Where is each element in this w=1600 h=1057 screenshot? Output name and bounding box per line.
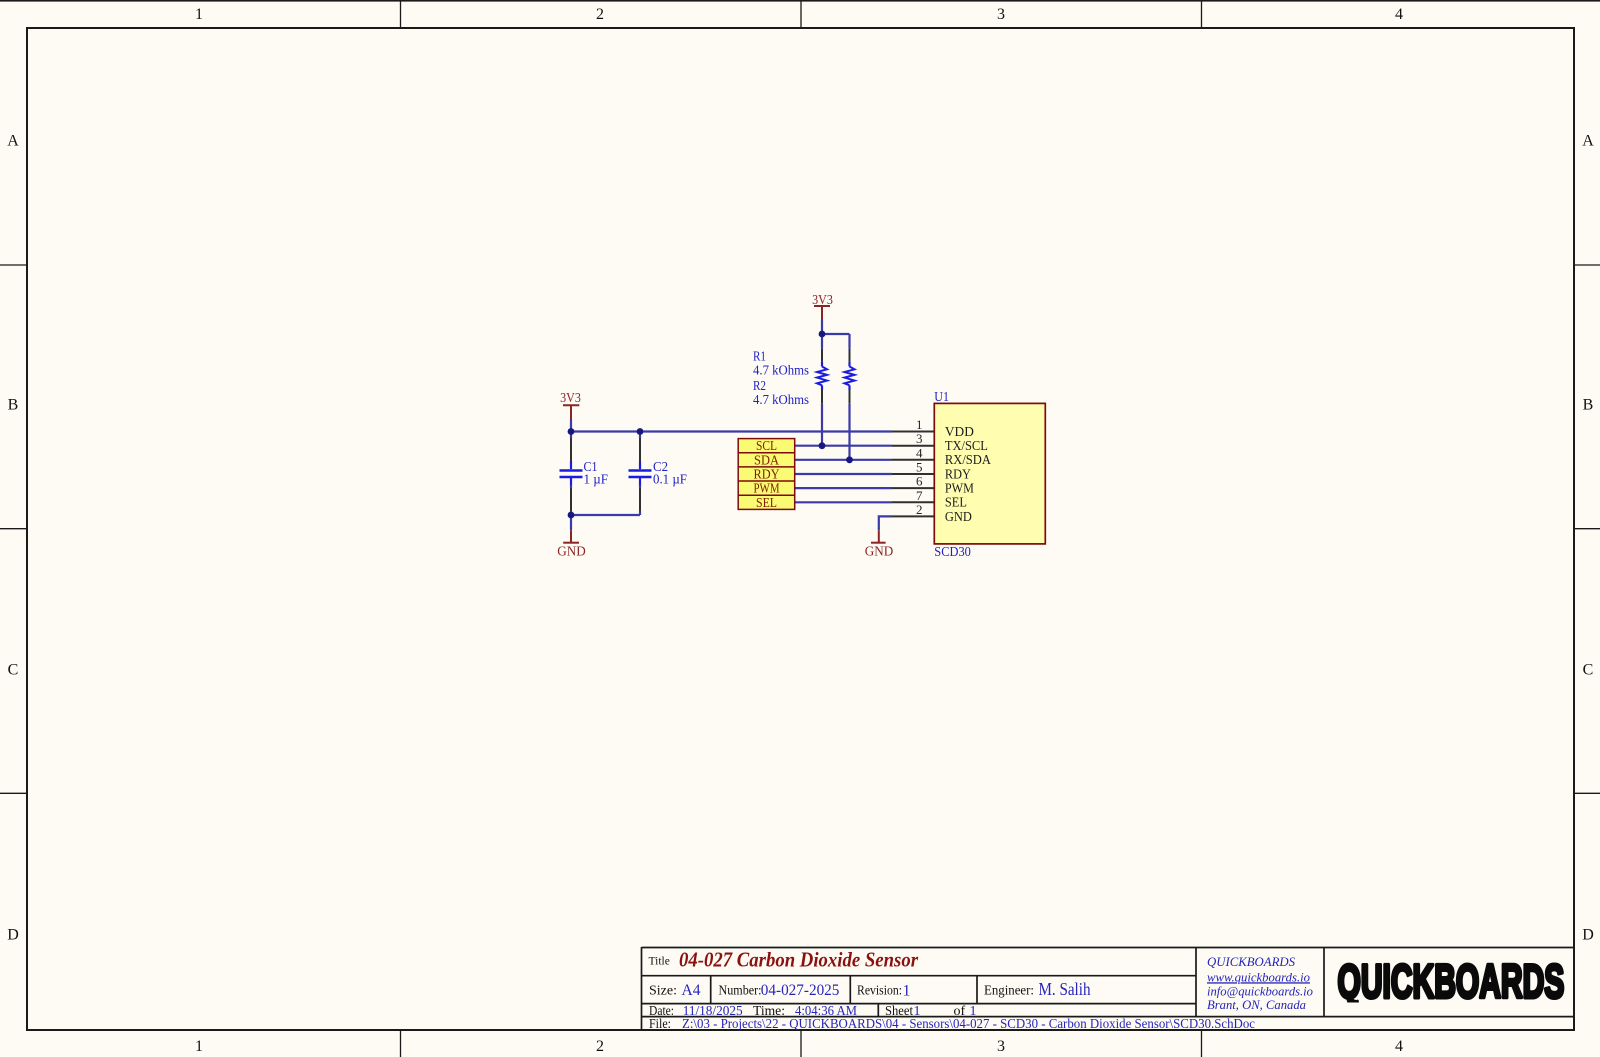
svg-text:2: 2 xyxy=(916,502,923,517)
svg-text:Z:\03 - Projects\22 - QUICKBOA: Z:\03 - Projects\22 - QUICKBOARDS\04 - S… xyxy=(682,1016,1255,1031)
svg-text:A: A xyxy=(1582,133,1594,150)
svg-text:1 µF: 1 µF xyxy=(584,471,609,486)
svg-text:Size:: Size: xyxy=(649,984,677,999)
svg-text:U1: U1 xyxy=(934,389,949,404)
svg-text:PWM: PWM xyxy=(754,481,780,496)
svg-text:R2: R2 xyxy=(753,378,766,393)
svg-text:PWM: PWM xyxy=(945,481,974,496)
svg-text:7: 7 xyxy=(916,488,923,503)
svg-text:04-027-2025: 04-027-2025 xyxy=(761,982,840,999)
svg-text:M. Salih: M. Salih xyxy=(1039,979,1091,999)
svg-text:2: 2 xyxy=(596,1038,604,1055)
svg-text:SCD30: SCD30 xyxy=(934,544,971,559)
svg-text:Number:: Number: xyxy=(719,984,762,999)
svg-text:VDD: VDD xyxy=(945,424,974,439)
svg-text:info@quickboards.io: info@quickboards.io xyxy=(1207,983,1313,998)
svg-text:QUICKBOARDS: QUICKBOARDS xyxy=(1338,956,1565,1008)
svg-text:SEL: SEL xyxy=(756,495,777,510)
svg-text:2: 2 xyxy=(596,6,604,23)
svg-text:Engineer:: Engineer: xyxy=(984,984,1034,999)
svg-text:D: D xyxy=(7,927,19,944)
svg-text:GND: GND xyxy=(557,544,586,559)
svg-text:GND: GND xyxy=(945,509,972,524)
svg-text:4: 4 xyxy=(916,445,923,460)
svg-text:04-027 Carbon Dioxide Sensor: 04-027 Carbon Dioxide Sensor xyxy=(679,948,919,972)
svg-text:A4: A4 xyxy=(682,982,701,999)
svg-text:SEL: SEL xyxy=(945,495,967,510)
svg-text:3: 3 xyxy=(916,431,923,446)
svg-text:Title: Title xyxy=(649,955,670,967)
svg-text:C: C xyxy=(1583,662,1594,679)
svg-text:1: 1 xyxy=(195,1038,203,1055)
svg-text:D: D xyxy=(1582,927,1594,944)
svg-text:Revision:: Revision: xyxy=(857,984,902,999)
svg-text:3V3: 3V3 xyxy=(812,293,833,308)
svg-text:SDA: SDA xyxy=(754,452,779,467)
svg-text:5: 5 xyxy=(916,460,923,475)
svg-text:4: 4 xyxy=(1395,1038,1403,1055)
svg-text:RDY: RDY xyxy=(945,466,971,481)
svg-text:GND: GND xyxy=(865,544,894,559)
svg-text:4: 4 xyxy=(1395,6,1403,23)
svg-text:R1: R1 xyxy=(753,348,766,363)
svg-text:3: 3 xyxy=(997,1038,1005,1055)
svg-text:RX/SDA: RX/SDA xyxy=(945,452,991,467)
svg-text:B: B xyxy=(8,397,19,414)
svg-text:File:: File: xyxy=(649,1017,671,1032)
svg-text:1: 1 xyxy=(903,983,911,1000)
svg-text:A: A xyxy=(7,133,19,150)
svg-text:4.7 kOhms: 4.7 kOhms xyxy=(753,363,809,378)
svg-text:B: B xyxy=(1583,397,1594,414)
svg-text:1: 1 xyxy=(195,6,203,23)
svg-text:3V3: 3V3 xyxy=(560,391,581,406)
svg-text:4.7 kOhms: 4.7 kOhms xyxy=(753,392,809,407)
svg-text:SCL: SCL xyxy=(756,438,777,453)
svg-text:6: 6 xyxy=(916,474,923,489)
svg-text:TX/SCL: TX/SCL xyxy=(945,438,988,453)
svg-text:Brant, ON, Canada: Brant, ON, Canada xyxy=(1207,997,1306,1012)
svg-text:RDY: RDY xyxy=(754,467,780,482)
svg-text:QUICKBOARDS: QUICKBOARDS xyxy=(1207,954,1295,969)
svg-text:C: C xyxy=(8,662,19,679)
svg-text:1: 1 xyxy=(916,417,923,432)
svg-text:0.1 µF: 0.1 µF xyxy=(653,471,687,486)
svg-text:www.quickboards.io: www.quickboards.io xyxy=(1207,969,1310,984)
svg-text:3: 3 xyxy=(997,6,1005,23)
